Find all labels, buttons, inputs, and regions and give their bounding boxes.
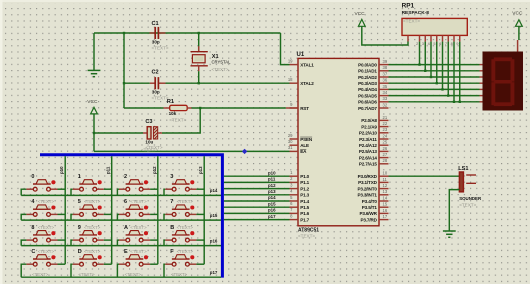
wire p15 net from bus to P1.5 xyxy=(224,206,290,208)
svg-text:p15: p15 xyxy=(268,201,276,206)
svg-text:P2.0/A8: P2.0/A8 xyxy=(361,118,377,123)
svg-text:<TEXT>: <TEXT> xyxy=(38,225,55,230)
node: C3 riser junction on RST net xyxy=(199,107,201,109)
pin 2 RP1 xyxy=(416,35,419,46)
svg-text:12: 12 xyxy=(383,183,388,188)
ground xyxy=(88,33,101,77)
resistor R1 xyxy=(124,99,298,122)
pin 37 P0.2/AD2 (right) xyxy=(358,71,388,79)
node: junction marker on EA wire xyxy=(242,149,247,154)
power VCC (display anode) xyxy=(512,11,523,27)
svg-text:<TEXT>: <TEXT> xyxy=(84,225,101,230)
svg-text:28: 28 xyxy=(383,158,388,163)
svg-text:P0.7/AD7: P0.7/AD7 xyxy=(358,106,377,111)
button F (keypad row 4 col 4) xyxy=(164,249,204,277)
wire RP1 pin3 pull-up drop xyxy=(424,42,426,71)
svg-text:p10: p10 xyxy=(268,170,276,175)
node label p17 xyxy=(210,270,218,275)
ground (sounder) xyxy=(443,231,456,237)
node label p13 (column, rotated) xyxy=(198,166,203,174)
svg-text:17: 17 xyxy=(383,214,388,219)
button 0 (keypad row 1 col 1) xyxy=(21,174,65,195)
pin 13 P3.3/INT1 (right) xyxy=(357,189,388,197)
wire VCC to display common anode xyxy=(518,26,519,53)
svg-text:p14: p14 xyxy=(210,188,218,193)
svg-text:33: 33 xyxy=(383,96,388,101)
pin 10 P3.0/RXD (right) xyxy=(358,171,389,179)
node: C3 branch junction on VCC stem xyxy=(93,132,95,134)
button 5 (keypad row 2 col 2) xyxy=(71,199,112,220)
svg-text:P1.4: P1.4 xyxy=(300,199,309,204)
button 2 (keypad row 1 col 3) xyxy=(117,174,157,195)
svg-text:<TEXT>: <TEXT> xyxy=(212,67,229,72)
svg-text:10: 10 xyxy=(383,171,388,176)
svg-text:VCC: VCC xyxy=(87,99,98,105)
svg-text:2: 2 xyxy=(124,174,127,180)
button 7 (keypad row 2 col 4) xyxy=(164,199,204,220)
svg-text:P0.1/AD1: P0.1/AD1 xyxy=(358,69,377,74)
button B (keypad row 3 col 4) xyxy=(164,225,204,246)
svg-text:XTAL2: XTAL2 xyxy=(300,81,314,86)
svg-text:LS1: LS1 xyxy=(458,166,468,172)
svg-text:p15: p15 xyxy=(210,213,218,218)
wire RP1 pin5 pull-up drop xyxy=(436,42,438,84)
wire RP1 pin4 pull-up drop xyxy=(430,42,432,77)
svg-text:E: E xyxy=(124,249,128,255)
svg-text:C3: C3 xyxy=(145,119,152,125)
pin 24 P2.3/A11 (right) xyxy=(359,133,388,141)
svg-text:P3.3/INT1: P3.3/INT1 xyxy=(357,193,377,198)
pin 36 P0.3/AD3 (right) xyxy=(358,78,388,86)
svg-text:<TEXT>: <TEXT> xyxy=(152,46,169,51)
wire p16 net from bus to P1.6 xyxy=(224,212,290,214)
wire P0.1 to 7-seg segment B xyxy=(389,70,483,72)
wire P0.3 to 7-seg segment D xyxy=(389,82,483,84)
svg-text:8: 8 xyxy=(31,225,34,231)
svg-text:<TEXT>: <TEXT> xyxy=(125,272,142,277)
pin 12 P3.2/INT0 (right) xyxy=(357,183,388,191)
pin 6 RP1 xyxy=(439,35,442,46)
node label p11 (column, rotated) xyxy=(106,166,111,174)
button 4 (keypad row 2 col 1) xyxy=(21,199,65,220)
node label p11 xyxy=(268,177,276,182)
wire p11 net from bus to P1.1 xyxy=(224,181,290,183)
svg-text:P3.6/WR: P3.6/WR xyxy=(359,211,377,216)
wire keypad row net p17 xyxy=(21,276,221,278)
svg-text:7: 7 xyxy=(445,42,447,46)
pin 28 P2.7/A15 (right) xyxy=(359,158,389,166)
node label p16 xyxy=(268,208,276,213)
svg-text:15: 15 xyxy=(383,202,388,207)
svg-text:1: 1 xyxy=(78,174,81,180)
pin 3 RP1 xyxy=(422,35,425,46)
svg-text:<TEXT>: <TEXT> xyxy=(169,117,186,122)
node label p10 xyxy=(268,170,276,175)
svg-text:EA: EA xyxy=(300,149,307,154)
button 3 (keypad row 1 col 4) xyxy=(164,174,204,195)
node label p10 (column, rotated) xyxy=(59,166,64,174)
svg-text:<TEXT>: <TEXT> xyxy=(84,199,101,204)
svg-text:<TEXT>: <TEXT> xyxy=(38,199,55,204)
svg-text:10k: 10k xyxy=(169,111,177,116)
pin 17 P3.7/RD (right) xyxy=(360,214,388,222)
svg-text:CRYSTAL: CRYSTAL xyxy=(212,60,232,65)
svg-text:31: 31 xyxy=(288,145,293,150)
svg-text:P2.6/A14: P2.6/A14 xyxy=(359,155,378,160)
wire VCC to RP1 pin1 xyxy=(362,26,408,45)
wire p17 net from bus to P1.7 xyxy=(224,219,290,221)
pin 7 RP1 xyxy=(445,35,448,46)
svg-text:36: 36 xyxy=(383,78,388,83)
pin 4 P1.3 (left) xyxy=(290,189,310,198)
svg-text:<TEXT>: <TEXT> xyxy=(130,249,147,254)
svg-text:P2.1/A9: P2.1/A9 xyxy=(361,124,377,129)
node junction RP1 drop 5 xyxy=(441,88,443,90)
svg-text:27: 27 xyxy=(383,152,388,157)
svg-text:P0.2/AD2: P0.2/AD2 xyxy=(358,75,377,80)
svg-text:30p: 30p xyxy=(152,89,160,94)
pin 34 P0.5/AD5 (right) xyxy=(358,90,388,98)
node label p13 xyxy=(268,189,276,194)
svg-text:32: 32 xyxy=(383,102,388,107)
pin 18 XTAL2 (left) xyxy=(288,77,314,86)
pin 8 RP1 xyxy=(451,35,454,46)
svg-text:4: 4 xyxy=(428,42,430,46)
svg-text:29: 29 xyxy=(288,133,293,138)
wire keypad column net p11 xyxy=(111,156,113,264)
button 9 (keypad row 3 col 2) xyxy=(71,225,112,246)
pin 15 P3.5/T1 (right) xyxy=(362,202,389,210)
pin 33 P0.6/AD6 (right) xyxy=(358,96,388,104)
svg-text:<TEXT>: <TEXT> xyxy=(459,202,476,207)
wire P0.2 to 7-seg segment C xyxy=(389,76,483,78)
svg-text:P3.1/TXD: P3.1/TXD xyxy=(358,180,378,185)
svg-text:p17: p17 xyxy=(210,270,218,275)
svg-text:PSEN: PSEN xyxy=(300,137,313,142)
wire RP1 pin6 pull-up drop xyxy=(442,42,444,90)
svg-text:RST: RST xyxy=(300,106,309,111)
wire p10 net from bus to P1.0 xyxy=(224,175,290,177)
pin 29 PSEN (left) xyxy=(288,133,313,142)
svg-text:22: 22 xyxy=(383,121,388,126)
svg-text:P0.4/AD4: P0.4/AD4 xyxy=(358,87,377,92)
wire p13 net from bus to P1.3 xyxy=(224,194,290,196)
svg-text:<TEXT>: <TEXT> xyxy=(177,199,194,204)
svg-text:P3.5/T1: P3.5/T1 xyxy=(362,205,378,210)
svg-text:P2.3/A11: P2.3/A11 xyxy=(359,137,377,142)
wire EA to VCC xyxy=(94,150,290,152)
svg-text:VCC: VCC xyxy=(355,11,366,17)
svg-text:<TEXT>: <TEXT> xyxy=(177,249,194,254)
node junction RP1 drop 3 xyxy=(430,76,432,78)
svg-text:30: 30 xyxy=(288,139,293,144)
svg-text:P1.3: P1.3 xyxy=(300,193,309,198)
svg-text:B: B xyxy=(170,225,174,231)
pin 3 P1.2 (left) xyxy=(290,182,310,191)
svg-text:ALE: ALE xyxy=(300,143,309,148)
svg-text:34: 34 xyxy=(383,90,388,95)
svg-text:C1: C1 xyxy=(152,21,159,27)
svg-text:<TEXT>: <TEXT> xyxy=(38,249,55,254)
wire RP1 pin8 pull-up drop xyxy=(453,42,455,102)
wire keypad column net p10 xyxy=(64,156,66,264)
node label p12 (column, rotated) xyxy=(152,166,157,174)
svg-text:U1: U1 xyxy=(297,52,305,58)
svg-text:2: 2 xyxy=(416,42,418,46)
pin 16 P3.6/WR (right) xyxy=(359,208,388,216)
node junction RP1 drop 7 xyxy=(453,101,455,103)
pin 9 RP1 xyxy=(456,35,459,46)
svg-text:p16: p16 xyxy=(268,208,276,213)
svg-text:8: 8 xyxy=(451,42,453,46)
capacitor C3 (10u electrolytic) xyxy=(94,119,163,150)
svg-text:19: 19 xyxy=(288,58,293,63)
pin 2 P1.1 (left) xyxy=(290,176,310,185)
pin 8 P1.7 (left) xyxy=(290,213,310,222)
svg-text:23: 23 xyxy=(383,127,388,132)
wire keypad row net p16 xyxy=(21,245,221,247)
svg-text:13: 13 xyxy=(383,189,388,194)
pin 1 P1.0 (left) xyxy=(290,170,310,179)
svg-text:p12: p12 xyxy=(152,166,157,174)
svg-text:18: 18 xyxy=(288,77,293,82)
svg-text:5: 5 xyxy=(433,42,435,46)
svg-text:C: C xyxy=(31,249,35,255)
svg-text:<TEXT>: <TEXT> xyxy=(403,19,420,24)
svg-text:p17: p17 xyxy=(268,214,276,219)
node label p16 xyxy=(210,238,218,243)
svg-text:p13: p13 xyxy=(268,189,276,194)
svg-text:p16: p16 xyxy=(210,238,218,243)
crystal X1 xyxy=(191,33,232,83)
node: crystal top junction xyxy=(198,32,200,34)
bus text label xyxy=(141,147,158,152)
resistor pack RP1 RESPACK-8 xyxy=(402,3,468,36)
button E (keypad row 4 col 3) xyxy=(117,249,157,277)
pin 14 P3.4/T0 (right) xyxy=(362,195,389,203)
svg-text:9: 9 xyxy=(456,42,458,46)
svg-text:9: 9 xyxy=(78,225,81,231)
svg-text:P2.7/A15: P2.7/A15 xyxy=(359,162,378,167)
svg-text:SOUNDER: SOUNDER xyxy=(459,196,482,201)
pin 5 RP1 xyxy=(433,35,436,46)
wire keypad row net p15 xyxy=(21,219,221,221)
svg-text:14: 14 xyxy=(383,195,388,200)
pin 21 P2.0/A8 (right) xyxy=(361,115,388,123)
svg-text:39: 39 xyxy=(383,59,388,64)
pin 32 P0.7/AD7 (right) xyxy=(358,102,388,110)
svg-text:p10: p10 xyxy=(59,166,64,174)
svg-text:<TEXT>: <TEXT> xyxy=(78,272,95,277)
svg-text:25: 25 xyxy=(383,140,388,145)
button 8 (keypad row 3 col 1) xyxy=(21,225,65,246)
wire p14 net from bus to P1.4 xyxy=(224,200,290,202)
svg-text:p13: p13 xyxy=(198,166,203,174)
pin 1 RP1 (common) xyxy=(400,35,408,46)
pin 23 P2.2/A10 (right) xyxy=(359,127,389,135)
wire XTAL1 net (gnd to C1 to crystal top to XTAL1 pin) xyxy=(94,33,290,65)
button 1 (keypad row 1 col 2) xyxy=(71,174,112,195)
svg-text:p12: p12 xyxy=(268,183,276,188)
wire sounder to ground xyxy=(449,190,459,231)
svg-text:24: 24 xyxy=(383,133,388,138)
svg-text:P0.6/AD6: P0.6/AD6 xyxy=(358,100,377,105)
svg-text:P3.7/RD: P3.7/RD xyxy=(360,217,377,222)
node: C2 tap junction xyxy=(123,82,125,84)
svg-text:P3.4/T0: P3.4/T0 xyxy=(362,199,378,204)
svg-text:<TEXT>: <TEXT> xyxy=(130,225,147,230)
svg-text:P2.4/A12: P2.4/A12 xyxy=(359,143,378,148)
wire P0.5 to 7-seg segment F xyxy=(389,95,483,97)
svg-text:R1: R1 xyxy=(167,99,174,105)
power VCC (RP1 common) xyxy=(355,11,366,26)
pin 25 P2.4/A12 (right) xyxy=(359,140,389,148)
pin 9 RST (left) xyxy=(290,102,310,111)
svg-text:16: 16 xyxy=(383,208,388,213)
pin 27 P2.6/A14 (right) xyxy=(359,152,389,160)
svg-text:38: 38 xyxy=(383,65,388,70)
node junction RP1 drop 6 xyxy=(447,94,449,96)
node label p15 xyxy=(210,213,218,218)
svg-text:P2.2/A10: P2.2/A10 xyxy=(359,131,378,136)
svg-text:30p: 30p xyxy=(152,40,160,45)
svg-text:<TEXT>: <TEXT> xyxy=(298,233,315,238)
svg-text:37: 37 xyxy=(383,71,388,76)
pin 38 P0.1/AD1 (right) xyxy=(358,65,388,73)
node junction RP1 drop 1 xyxy=(418,63,420,65)
svg-text:21: 21 xyxy=(383,115,388,120)
pin 22 P2.1/A9 (right) xyxy=(361,121,388,129)
wire C3 to RST riser xyxy=(162,108,200,133)
svg-text:P1.1: P1.1 xyxy=(300,180,309,185)
wire RP1 pin7 pull-up drop xyxy=(447,42,449,96)
pin 35 P0.4/AD4 (right) xyxy=(358,84,388,92)
svg-text:P2.5/A13: P2.5/A13 xyxy=(359,149,378,154)
wire RP1 pin9 pull-up drop xyxy=(459,42,461,102)
power VCC (reset) xyxy=(87,99,98,151)
svg-text:10u: 10u xyxy=(145,140,153,145)
svg-text:RESPACK-8: RESPACK-8 xyxy=(402,10,430,16)
svg-text:P1.6: P1.6 xyxy=(300,211,309,216)
wire p12 net from bus to P1.2 xyxy=(224,188,290,190)
svg-text:35: 35 xyxy=(383,84,388,89)
node: C2 branch junction on XTAL1 net xyxy=(123,32,125,34)
svg-text:P3.0/RXD: P3.0/RXD xyxy=(358,174,378,179)
pin 31 EA (left) xyxy=(288,145,307,154)
svg-text:<TEXT>: <TEXT> xyxy=(32,272,49,277)
svg-text:6: 6 xyxy=(124,199,127,205)
wire RP1 pin2 pull-up drop xyxy=(419,42,421,65)
svg-text:RP1: RP1 xyxy=(402,3,415,10)
wire P0.6 to 7-seg segment G xyxy=(389,101,483,103)
svg-text:p11: p11 xyxy=(268,177,276,182)
node junction RP1 drop 2 xyxy=(424,70,426,72)
pin 19 XTAL1 (left) xyxy=(288,58,314,67)
svg-text:P0.5/AD5: P0.5/AD5 xyxy=(358,93,377,98)
svg-text:11: 11 xyxy=(383,177,388,182)
node label p17 xyxy=(268,214,276,219)
wire XTAL2 net (C2 to crystal bottom to XTAL2 pin) xyxy=(124,82,290,84)
capacitor C2 xyxy=(150,70,169,101)
svg-text:<TEXT>: <TEXT> xyxy=(141,147,158,152)
svg-text:3: 3 xyxy=(170,174,173,180)
button 6 (keypad row 2 col 3) xyxy=(117,199,157,220)
button C (keypad row 4 col 1) xyxy=(21,249,65,277)
svg-text:D: D xyxy=(78,249,82,255)
svg-text:C2: C2 xyxy=(152,70,159,76)
button A (keypad row 3 col 3) xyxy=(117,225,157,246)
node label p12 xyxy=(268,183,276,188)
svg-text:p14: p14 xyxy=(268,195,276,200)
svg-text:P1.0: P1.0 xyxy=(300,174,309,179)
wire P0.4 to 7-seg segment E xyxy=(389,88,483,90)
node junction RP1 drop 8 xyxy=(459,101,461,103)
wire keypad column net p13 xyxy=(203,156,205,264)
op/mcu U1 AT89C51 body xyxy=(297,52,380,238)
svg-text:XTAL1: XTAL1 xyxy=(300,62,314,67)
node: crystal bottom junction xyxy=(198,82,200,84)
pin 11 P3.1/TXD (right) xyxy=(358,177,388,185)
svg-text:7: 7 xyxy=(170,199,173,205)
svg-text:26: 26 xyxy=(383,146,388,151)
pin 5 P1.4 (left) xyxy=(290,195,310,204)
svg-text:<TEXT>: <TEXT> xyxy=(171,272,188,277)
wire gnd-branch down to C2 / R1 left xyxy=(123,33,125,108)
svg-text:<TEXT>: <TEXT> xyxy=(177,225,194,230)
pin 4 RP1 xyxy=(428,35,431,46)
node label p15 xyxy=(268,201,276,206)
svg-text:3: 3 xyxy=(422,42,424,46)
svg-text:P0.3/AD3: P0.3/AD3 xyxy=(358,81,377,86)
button D (keypad row 4 col 2) xyxy=(71,249,112,277)
svg-text:P0.0/AD0: P0.0/AD0 xyxy=(358,62,377,67)
capacitor C1 xyxy=(150,21,169,50)
speaker LS1 SOUNDER xyxy=(458,166,482,207)
wire keypad row net p14 xyxy=(21,194,221,196)
pin 30 ALE (left) xyxy=(288,139,309,148)
bus keypad (blue) xyxy=(40,155,222,278)
node junction RP1 drop 4 xyxy=(436,82,438,84)
node label p14 xyxy=(268,195,276,200)
svg-text:P1.7: P1.7 xyxy=(300,217,309,222)
wire P0.0 to 7-seg segment A xyxy=(389,64,483,66)
svg-text:0: 0 xyxy=(31,174,34,180)
pin 6 P1.5 (left) xyxy=(290,201,310,210)
svg-text:5: 5 xyxy=(78,199,81,205)
svg-text:VCC: VCC xyxy=(512,11,523,17)
wire keypad column net p12 xyxy=(157,156,159,264)
svg-text:6: 6 xyxy=(439,42,441,46)
svg-text:P1.2: P1.2 xyxy=(300,186,309,191)
display LS 7-segment (common anode) xyxy=(483,52,524,111)
svg-text:<TEXT>: <TEXT> xyxy=(84,249,101,254)
svg-text:p11: p11 xyxy=(106,166,111,174)
wire P3.0 to sounder xyxy=(389,175,460,177)
pin 7 P1.6 (left) xyxy=(290,207,310,216)
svg-text:P1.5: P1.5 xyxy=(300,205,309,210)
node label p14 xyxy=(210,188,218,193)
svg-text:<TEXT>: <TEXT> xyxy=(130,199,147,204)
svg-text:A: A xyxy=(124,225,128,231)
pin 26 P2.5/A13 (right) xyxy=(359,146,389,154)
pin 39 P0.0/AD0 (right) xyxy=(358,59,388,67)
svg-text:P3.2/INT0: P3.2/INT0 xyxy=(357,186,377,191)
